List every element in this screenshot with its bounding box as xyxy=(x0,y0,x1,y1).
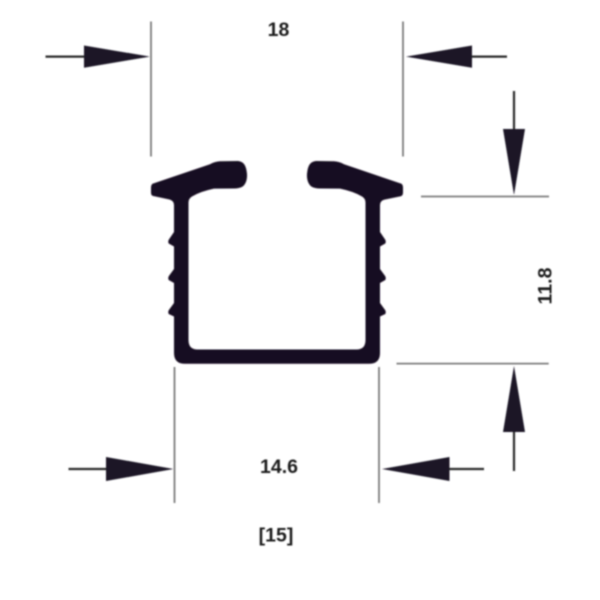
dimension 11.8: top extension line xyxy=(421,196,549,198)
dimension 14.6: right extension line xyxy=(378,367,380,503)
dimension 18: right arrow (points left) xyxy=(406,46,507,68)
dimension 14.6: value label xyxy=(260,456,298,478)
dimension 11.8: bottom arrow (points up) xyxy=(503,366,525,471)
dimension 18: left arrow (points right) xyxy=(46,46,151,68)
dimension 18: value label xyxy=(268,19,290,41)
svg-text:[15]: [15] xyxy=(259,525,294,547)
dimension 18: right extension line xyxy=(402,22,404,157)
dimension 14.6: left extension line xyxy=(174,367,176,503)
dimension 14.6: left arrow (points right) xyxy=(69,457,174,481)
svg-text:18: 18 xyxy=(268,19,290,41)
profile cross-section (U-channel extrusion body) xyxy=(151,161,403,364)
dimension 11.8: value label (rotated) xyxy=(535,267,557,304)
svg-text:11.8: 11.8 xyxy=(535,267,557,304)
dimension 18: left extension line xyxy=(150,22,152,157)
dimension 11.8: bottom extension line xyxy=(397,363,549,365)
dimension 14.6: right arrow (points left) xyxy=(382,457,484,481)
part number label [15] xyxy=(259,525,294,547)
dimension 11.8: top arrow (points down) xyxy=(503,91,525,195)
svg-text:14.6: 14.6 xyxy=(260,456,298,478)
